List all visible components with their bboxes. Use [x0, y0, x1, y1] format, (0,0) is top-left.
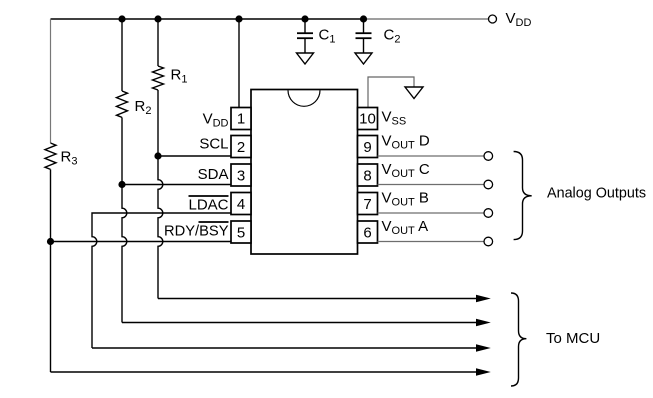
pin 8 box	[358, 164, 378, 186]
svg-text:Analog Outputs: Analog Outputs	[547, 185, 646, 202]
svg-text:3: 3	[237, 168, 245, 185]
node RDY/BSY junction	[47, 238, 54, 245]
svg-text:6: 6	[363, 225, 371, 242]
node C2 top	[360, 15, 367, 22]
ground C2	[355, 53, 372, 64]
wire RDY/BSY to MCU vertical	[50, 242, 52, 373]
label pin 4 LDAC	[188, 196, 228, 214]
capacitor C1	[297, 19, 313, 53]
pin 9 box	[358, 136, 378, 158]
wire R1 bottom to SCL node	[157, 90, 159, 156]
svg-text:To MCU: To MCU	[546, 330, 600, 347]
terminal VOUT A	[484, 237, 493, 246]
arrowhead MCU 3	[476, 344, 491, 352]
wire R2 bottom to SDA node	[121, 117, 123, 184]
brace to MCU	[511, 293, 526, 386]
svg-text:4: 4	[237, 196, 245, 213]
VDD terminal	[489, 15, 497, 23]
node R2 top	[118, 15, 125, 22]
wire SCL to pin 2	[158, 155, 231, 157]
wire VOUT C output	[378, 184, 485, 186]
wire R1 branch upper	[157, 19, 159, 66]
label pin 5 RDY/BSY	[164, 222, 229, 240]
wire SCL to MCU vertical with hops	[158, 156, 163, 299]
svg-text:SDA: SDA	[198, 166, 229, 183]
svg-text:7: 7	[363, 196, 371, 213]
wire R2 branch upper	[121, 19, 123, 91]
pin 2 box	[231, 136, 251, 158]
pin 3 box	[231, 164, 251, 186]
capacitor C2	[356, 19, 372, 53]
node pin1 supply	[235, 15, 242, 22]
arrowhead MCU 4	[476, 368, 491, 376]
pin 6 box	[358, 221, 378, 243]
pin 5 box	[231, 221, 251, 243]
resistor R1	[153, 66, 164, 90]
svg-text:RDY/BSY: RDY/BSY	[164, 223, 229, 240]
svg-text:10: 10	[359, 111, 376, 128]
wire pin 1 to VDD rail	[238, 19, 240, 108]
terminal VOUT D	[484, 152, 493, 161]
wire SDA to MCU vertical with hops	[122, 185, 127, 323]
wire R3 branch upper	[50, 19, 52, 143]
wire VDD top rail	[51, 18, 364, 20]
node R1 top	[154, 15, 161, 22]
resistor R2	[117, 91, 128, 117]
node SCL junction	[154, 152, 161, 159]
svg-text:LDAC: LDAC	[188, 197, 228, 214]
pin 4 box	[231, 193, 251, 215]
wire SDA to pin 3	[122, 184, 231, 186]
terminal VOUT C	[484, 180, 493, 189]
node SDA junction	[118, 181, 125, 188]
wire R3 bottom to RDY node	[50, 169, 52, 241]
terminal VOUT B	[484, 209, 493, 218]
pin 1 box	[231, 108, 251, 130]
ground C1	[297, 53, 314, 64]
wire pin 10 to ground	[368, 77, 414, 108]
op-amp U1 IC body	[251, 90, 358, 255]
resistor R3	[45, 143, 56, 169]
arrowhead MCU 1	[476, 295, 491, 303]
svg-text:1: 1	[237, 111, 245, 128]
wire VOUT A output	[378, 241, 485, 243]
wire RDY/BSY to pin 5	[51, 241, 232, 243]
pin 7 box	[358, 193, 378, 215]
ground VSS	[405, 87, 423, 99]
wire VOUT B output	[378, 212, 485, 214]
brace analog outputs	[514, 152, 532, 240]
wire MCU line 4 (RDY/BSY)	[51, 371, 478, 373]
wire VOUT D output	[378, 155, 485, 157]
svg-text:9: 9	[363, 139, 371, 156]
wire MCU line 3 (LDAC)	[92, 347, 477, 349]
svg-text:2: 2	[237, 139, 245, 156]
svg-text:SCL: SCL	[199, 136, 228, 153]
wire MCU line 1 (SCL)	[158, 298, 477, 300]
arrowhead MCU 2	[476, 319, 491, 327]
wire MCU line 2 (SDA)	[122, 322, 477, 324]
svg-text:5: 5	[237, 225, 245, 242]
node C1 top	[301, 15, 308, 22]
svg-text:8: 8	[363, 168, 371, 185]
wire LDAC to pin 4	[92, 213, 231, 348]
pin 10 box	[358, 108, 378, 130]
